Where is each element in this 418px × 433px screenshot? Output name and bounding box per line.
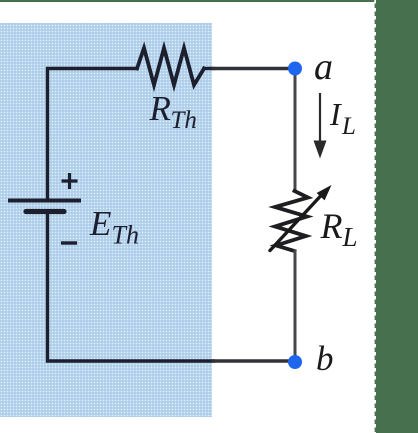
svg-text:a: a xyxy=(314,46,333,88)
wire: R_Th to node a xyxy=(204,67,213,70)
battery E_Th plate - (short) xyxy=(26,209,64,214)
R_L variable arrow xyxy=(270,196,321,251)
wire: R_L to node b xyxy=(294,251,297,361)
wire: left vertical below battery + bottom horizontal xyxy=(48,214,214,361)
shaded analysis region (light blue textured rectangle) xyxy=(0,23,212,417)
node a (terminal dot) xyxy=(288,62,302,76)
page margin bar right (green) xyxy=(375,0,418,433)
resistor R_L xyxy=(275,191,308,251)
wire: left vertical + top horizontal (battery to R_Th) xyxy=(48,69,138,201)
label R_L xyxy=(320,206,358,252)
label R_Th xyxy=(149,89,197,134)
battery plus sign xyxy=(62,173,78,189)
svg-text:R: R xyxy=(149,89,171,128)
label I_L xyxy=(329,96,356,140)
wire: bottom to node b xyxy=(213,359,295,362)
svg-text:b: b xyxy=(316,339,334,378)
page border top (green rule) xyxy=(0,0,418,2)
svg-text:I: I xyxy=(329,96,342,132)
wire: node a down to R_L xyxy=(294,69,297,192)
resistor R_Th xyxy=(137,48,204,85)
label E_Th xyxy=(89,204,139,250)
svg-text:L: L xyxy=(341,113,356,140)
svg-text:L: L xyxy=(342,222,358,252)
node b (terminal dot) xyxy=(288,355,302,369)
battery E_Th plate + (long) xyxy=(8,199,81,203)
battery minus sign xyxy=(61,241,77,244)
svg-text:E: E xyxy=(89,204,111,243)
svg-text:Th: Th xyxy=(112,221,139,250)
svg-text:R: R xyxy=(320,206,343,246)
current arrow I_L xyxy=(319,93,321,143)
svg-text:Th: Th xyxy=(171,107,197,134)
